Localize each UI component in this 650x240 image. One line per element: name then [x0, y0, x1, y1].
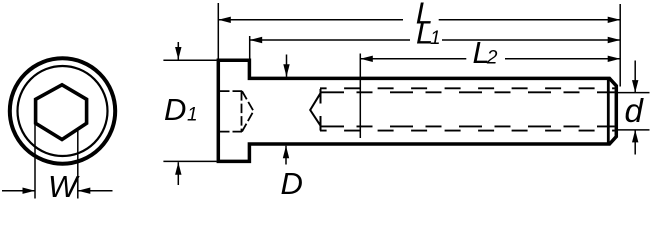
dimension W: left extension line [34, 125, 36, 199]
thread runout chevron [310, 92, 321, 126]
dimension W: right extension line [77, 130, 79, 199]
svg-text:W: W [48, 169, 80, 200]
thread minor diameter upper hidden line [321, 91, 615, 93]
dimension L2: left extension line [359, 54, 361, 139]
dimension D1: bottom extension line [163, 160, 216, 162]
svg-text:D: D [281, 166, 303, 200]
thread runout vertical dashes [320, 89, 322, 131]
thread major diameter lower hidden line [320, 130, 615, 132]
side view: end chamfer line [607, 80, 610, 143]
dimension L2: dimension line with arrows [360, 56, 620, 62]
dimension D: bottom arrow [283, 146, 289, 165]
dimension L/L1/L2: right extension line [619, 4, 621, 87]
dimension D1: bottom arrow [175, 162, 181, 185]
hex socket hidden top line [220, 90, 242, 92]
hex socket hidden cone point [242, 91, 254, 132]
dimension L: dimension line with arrows [218, 17, 620, 23]
end view: hex socket [36, 85, 87, 140]
svg-text:2: 2 [486, 47, 498, 68]
end view: head chamfer circle [18, 66, 108, 156]
dimension L1: dimension line with arrows [250, 37, 621, 43]
dimension L: left extension line [217, 3, 219, 59]
end view: head outer circle [10, 58, 115, 163]
dimension L1: left extension line [249, 36, 251, 60]
dimension D1: top extension line [163, 59, 216, 61]
dimension d: top extension line [618, 92, 650, 94]
dimension D1: top arrow [175, 42, 181, 60]
dimension d: bottom extension line [618, 129, 650, 131]
hex socket hidden bottom line [220, 131, 242, 133]
dimension d: top arrow [632, 61, 638, 93]
dimension W: left dimension line with arrow [2, 188, 35, 194]
hex socket hidden end line [241, 91, 243, 132]
thread minor diameter lower hidden line [321, 125, 615, 127]
dimension D: top arrow [283, 55, 289, 77]
svg-text:d: d [625, 92, 645, 129]
svg-text:1: 1 [187, 104, 198, 125]
dimension W: right dimension line with arrow [78, 188, 113, 194]
side view: screw outline (head, shank, chamfered end) [218, 60, 616, 161]
svg-text:1: 1 [430, 28, 441, 49]
thread major diameter upper hidden line [320, 87, 615, 89]
svg-text:D: D [164, 92, 186, 127]
dimension d: bottom arrow [632, 130, 638, 155]
